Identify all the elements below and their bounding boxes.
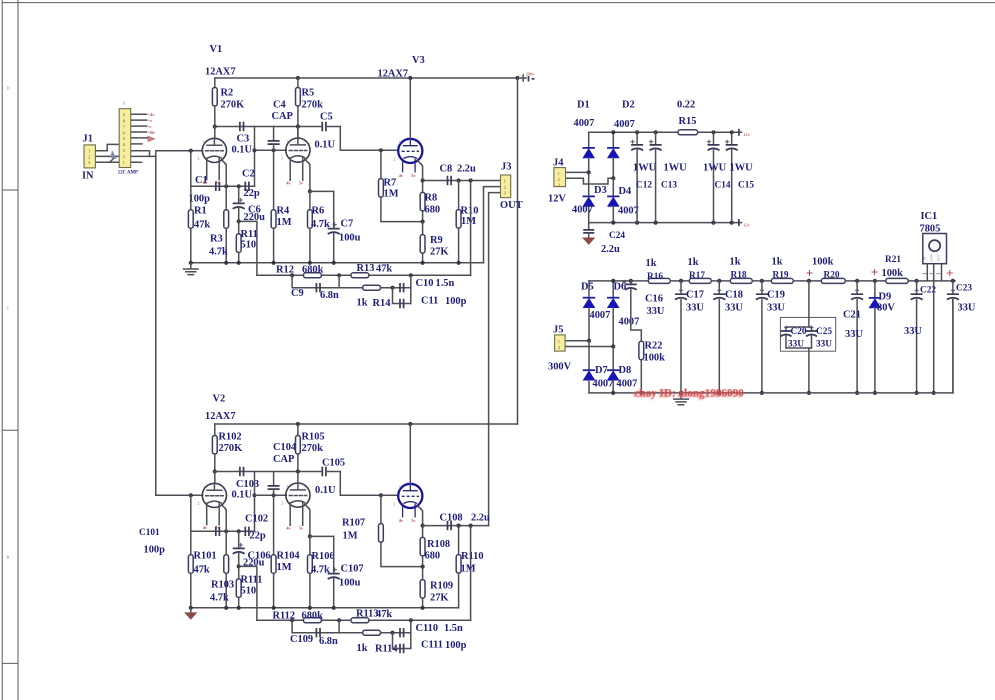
wire C104 bottom lead <box>273 489 275 495</box>
svg-text:C10: C10 <box>416 278 434 289</box>
capacitor C16 <box>625 284 637 289</box>
svg-text:1M: 1M <box>343 531 358 542</box>
svg-text:270K: 270K <box>219 443 243 454</box>
wire D3 top lead <box>588 172 590 196</box>
svg-text:2: 2 <box>197 156 199 161</box>
wire C5 to V3 grid <box>326 127 398 151</box>
wire D8 top lead <box>612 347 614 371</box>
wire C104 top lead <box>273 472 275 486</box>
wire J1 pin3 to U pin9 <box>95 161 141 163</box>
svg-text:1k: 1k <box>357 298 368 309</box>
svg-text:22p: 22p <box>250 531 266 542</box>
wire R11 top lead <box>238 221 240 234</box>
wire feedback tap down ch2 <box>239 566 257 620</box>
wire R106 bottom lead <box>309 573 311 608</box>
wire B+ rail seg3 <box>711 280 730 282</box>
capacitor C110 <box>400 628 404 637</box>
svg-text:C105: C105 <box>322 458 345 469</box>
svg-text:R4: R4 <box>277 206 290 217</box>
junction C17 <box>679 279 683 283</box>
svg-text:2.2u: 2.2u <box>457 164 476 175</box>
svg-text:12AX7: 12AX7 <box>378 69 409 80</box>
junction R105 top <box>296 422 300 426</box>
wire C25 top lead <box>811 327 813 331</box>
wire R7 bottom to R8/R9 <box>381 197 423 222</box>
wire D5 bottom lead <box>588 308 590 341</box>
svg-text:C21: C21 <box>843 310 861 321</box>
wire C1 C2 row <box>191 185 255 187</box>
wire U pin6 stub <box>131 143 142 145</box>
junction R112 left <box>290 618 294 622</box>
capacitor C109 <box>316 628 320 637</box>
svg-text:33U: 33U <box>725 303 743 314</box>
wire bottom channel ground rail <box>191 607 459 609</box>
junction R106/C107 <box>308 534 312 538</box>
connector J4 <box>554 168 566 187</box>
svg-text:R11: R11 <box>241 229 258 240</box>
wire R103 bottom lead <box>225 573 227 608</box>
junction R107 top <box>379 493 383 497</box>
wire R107 bottom to R108/R109 <box>381 542 423 567</box>
capacitor C22 <box>911 294 923 299</box>
resistor R6 <box>308 210 313 229</box>
wire C106 bottom lead <box>238 554 240 567</box>
wire R14 to C10 <box>381 287 411 289</box>
svg-text:33U: 33U <box>788 340 804 350</box>
wire V2b grid row <box>255 494 287 496</box>
capacitor C20 <box>781 331 792 336</box>
wire channel-2 input long vertical <box>155 156 157 495</box>
svg-text:D: D <box>7 86 10 91</box>
capacitor C18 <box>713 294 725 299</box>
wire V103 cathode out <box>418 506 423 526</box>
svg-text:2: 2 <box>281 501 283 506</box>
junction D5/D7 <box>587 339 591 343</box>
wire feedback tap down <box>239 221 257 275</box>
svg-text:R14: R14 <box>373 298 391 309</box>
junction R9 gnd <box>421 261 425 265</box>
capacitor C106 <box>233 548 245 553</box>
wire B+ rail seg1 <box>589 280 648 282</box>
svg-text:1: 1 <box>286 139 288 144</box>
svg-text:510: 510 <box>241 240 257 251</box>
wire heater rail right <box>698 131 742 133</box>
svg-text:0.1U: 0.1U <box>232 490 253 501</box>
resistor R106 <box>308 555 313 574</box>
junction R22 gnd <box>639 391 643 395</box>
junction R110 top <box>457 524 461 528</box>
svg-text:R101: R101 <box>194 551 217 562</box>
junction R108/R109 <box>421 565 425 569</box>
svg-text:B: B <box>7 555 10 560</box>
junction R12 left <box>290 273 294 277</box>
wire output row ch2 <box>423 525 489 527</box>
wire R105 bottom lead <box>297 454 299 472</box>
ground earth symbol B+ rail <box>674 393 689 405</box>
svg-text:680: 680 <box>425 551 441 562</box>
wire J4 pin2 jog <box>566 178 614 184</box>
resistor R7 <box>379 179 384 198</box>
svg-text:D4: D4 <box>619 186 632 197</box>
wire +280v rail <box>215 77 518 79</box>
svg-text:1: 1 <box>399 485 401 490</box>
wire R110 bottom lead / gnd rail corner <box>458 573 460 608</box>
svg-text:CAP: CAP <box>273 454 295 465</box>
wire IC1 IN leg <box>926 264 928 281</box>
svg-text:OUT: OUT <box>936 254 940 261</box>
junction C10 top <box>409 273 413 277</box>
wire J5 pin2 <box>565 346 613 348</box>
wire C25 bottom lead <box>811 336 813 348</box>
svg-text:R5: R5 <box>302 88 315 99</box>
wire R9 top lead <box>422 222 424 235</box>
wire C109 row <box>292 620 363 632</box>
svg-text:1: 1 <box>203 484 205 489</box>
wire U pin1 stub <box>131 113 147 115</box>
capacitor C23 <box>947 294 959 299</box>
triode V103 (12AX7 cathode follower) <box>398 484 422 518</box>
svg-text:1WU: 1WU <box>730 163 754 174</box>
wire R10 bottom lead <box>458 228 460 263</box>
wire R5 bottom lead <box>297 106 299 127</box>
diode D2 (1N4007) <box>607 147 619 149</box>
wire U pin7 jog <box>131 151 150 157</box>
junction C18 gnd <box>717 391 721 395</box>
svg-text:12v: 12v <box>744 222 751 227</box>
wire V2a plate lead <box>214 472 216 484</box>
wire V2a cathode lead <box>222 505 227 555</box>
svg-text:C103: C103 <box>236 479 259 490</box>
wire R108 bottom lead <box>422 556 424 567</box>
svg-text:D5: D5 <box>581 282 594 293</box>
junction C106/R111 <box>237 564 241 568</box>
wire C20 bottom lead <box>785 336 787 348</box>
wire V3 cathode out <box>418 161 423 181</box>
capacitor C108 <box>448 521 452 530</box>
junction R103 gnd <box>224 606 228 610</box>
resistor R15 <box>678 130 698 135</box>
wire plate coupling row <box>215 126 322 128</box>
wire R102 top lead <box>214 424 216 436</box>
capacitor C5 <box>322 122 326 131</box>
svg-text:D8: D8 <box>619 365 632 376</box>
wire C18 top lead <box>718 281 720 294</box>
svg-text:IC1: IC1 <box>921 211 938 222</box>
wire R101 top lead <box>190 531 192 555</box>
junction C15 top <box>730 130 734 134</box>
wire D4 bottom lead <box>612 206 614 222</box>
junction D9 gnd <box>873 391 877 395</box>
diode D4 (1N4007) <box>607 195 619 197</box>
wire D8 bottom lead <box>612 380 614 393</box>
svg-text:4007: 4007 <box>572 205 593 216</box>
wire C105 to V103 grid <box>326 472 398 496</box>
capacitor C107 <box>328 574 340 579</box>
resistor R10 <box>456 210 461 229</box>
svg-text:47k: 47k <box>194 565 210 576</box>
wire D9 bottom lead <box>874 308 876 393</box>
svg-text:1WU: 1WU <box>633 163 657 174</box>
svg-text:1k: 1k <box>772 257 783 268</box>
svg-text:C23: C23 <box>956 284 972 294</box>
svg-text:4.7k: 4.7k <box>311 565 330 576</box>
triode V3 (12AX7 cathode follower) <box>398 139 422 173</box>
resistor R4 <box>271 210 276 229</box>
wire C7 top lead <box>333 191 335 228</box>
capacitor C101 <box>216 527 220 536</box>
svg-text:4007: 4007 <box>614 119 635 130</box>
wire C106 top lead <box>238 531 240 548</box>
junction R14/C10/C11 <box>390 286 394 290</box>
junction R10 top <box>457 178 461 182</box>
wire C110 right vertical <box>410 620 412 648</box>
capacitor C8 <box>448 176 452 185</box>
wire V1 grid net <box>156 151 191 157</box>
power port marker top <box>738 129 740 136</box>
wire D7 bottom lead <box>588 380 590 393</box>
wire C109 right up <box>338 620 340 632</box>
resistor R104 <box>271 555 276 574</box>
svg-text:4007: 4007 <box>619 317 640 328</box>
junction R5 top <box>296 76 300 80</box>
svg-text:7805: 7805 <box>920 224 941 235</box>
wire R109 top lead <box>422 567 424 580</box>
wire C19 top lead <box>761 281 763 294</box>
wire C107 top lead <box>333 536 335 573</box>
junction C106 top <box>237 529 241 533</box>
wire C23 bottom to rail corner <box>952 300 954 393</box>
svg-text:R109: R109 <box>430 581 453 592</box>
svg-text:J3: J3 <box>501 161 511 172</box>
svg-text:U: U <box>123 101 126 106</box>
wire C17 bottom lead <box>680 300 682 393</box>
svg-text:C109: C109 <box>290 634 313 645</box>
resistor R16 <box>648 278 670 283</box>
wire R104 top lead <box>273 495 275 555</box>
junction C20 gnd <box>807 391 811 395</box>
junction output node <box>421 178 425 182</box>
svg-text:280v: 280v <box>526 72 535 77</box>
junction D1/D3 <box>587 170 591 174</box>
svg-text:C108: C108 <box>440 513 463 524</box>
capacitor C9 <box>316 283 320 292</box>
svg-text:2.2u: 2.2u <box>471 513 490 524</box>
junction grid tee <box>252 148 256 152</box>
svg-text:D1: D1 <box>577 100 590 111</box>
wire grid branch down <box>190 151 192 187</box>
svg-text:100p: 100p <box>445 640 467 651</box>
svg-text:1WU: 1WU <box>664 163 688 174</box>
junction R109 gnd <box>421 606 425 610</box>
wire D3 bottom lead <box>588 206 590 222</box>
wire J1 pin1 step up to U <box>95 144 119 150</box>
wire C22 bottom lead <box>916 300 918 393</box>
svg-text:270K: 270K <box>221 100 245 111</box>
wire R9 bottom lead <box>422 253 424 263</box>
junction V103 plate <box>408 422 412 426</box>
svg-text:33U: 33U <box>845 329 863 340</box>
junction C13 top <box>654 130 658 134</box>
svg-text:33U: 33U <box>816 340 832 350</box>
junction V2b plate node <box>296 469 300 473</box>
svg-text:100k: 100k <box>882 268 904 279</box>
wire R6 top lead <box>309 191 311 209</box>
wire V2b plate <box>297 472 299 484</box>
junction C21 gnd <box>855 391 859 395</box>
svg-text:0.1U: 0.1U <box>232 145 253 156</box>
svg-text:R1: R1 <box>194 206 207 217</box>
wire C16 to R22 <box>631 290 642 342</box>
svg-text:C104: C104 <box>273 442 296 453</box>
junction R6 gnd <box>308 261 312 265</box>
junction C7 gnd <box>332 261 336 265</box>
wire B+ rail seg7 <box>908 280 955 282</box>
svg-text:1M: 1M <box>277 562 292 573</box>
svg-text:R8: R8 <box>425 193 438 204</box>
junction R101 gnd <box>189 606 193 610</box>
power port marker bottom <box>738 219 740 226</box>
resistor R114 <box>363 630 381 635</box>
svg-text:R6: R6 <box>312 206 325 217</box>
tiny port mark above rail at D9 <box>872 269 878 275</box>
junction D2 rail <box>611 130 615 134</box>
svg-text:1M: 1M <box>384 189 399 200</box>
svg-text:R21: R21 <box>885 255 901 265</box>
svg-text:33U: 33U <box>647 306 665 317</box>
wire C14 bottom lead <box>713 150 715 223</box>
svg-text:510: 510 <box>241 586 257 597</box>
wire D7 top lead <box>588 341 590 371</box>
wire B+ rail seg5 <box>793 280 821 282</box>
wire C13 top lead <box>655 132 657 145</box>
svg-text:V1: V1 <box>210 44 223 55</box>
svg-text:680: 680 <box>425 205 441 216</box>
junction fb tap ch2 <box>469 524 473 528</box>
svg-text:R18: R18 <box>731 271 747 281</box>
wire D6 top lead <box>612 281 614 298</box>
svg-text:R104: R104 <box>277 551 300 562</box>
wire C15 bottom lead <box>731 150 733 223</box>
IC1 7805 regulator <box>923 234 947 264</box>
svg-text:R13: R13 <box>357 263 375 274</box>
wire R12 R13 row <box>257 274 471 276</box>
wire R101 bottom lead <box>190 573 192 608</box>
wire C20 top lead <box>785 327 787 331</box>
resistor R17 <box>689 278 711 283</box>
junction R104 gnd <box>272 606 276 610</box>
wire C6 bottom lead <box>238 209 240 222</box>
svg-text:C102: C102 <box>245 514 268 525</box>
wire R1 top lead <box>190 186 192 210</box>
svg-text:R103: R103 <box>211 580 234 591</box>
svg-text:1.5n: 1.5n <box>436 278 455 289</box>
wire C20/C25 bottom tie <box>786 347 812 349</box>
wire IC1 OUT leg <box>941 264 943 281</box>
capacitor C1 <box>216 182 220 191</box>
svg-text:GND: GND <box>929 253 933 261</box>
wire J3 pin3 down to channel 2 <box>489 193 501 526</box>
wire R106 top lead <box>309 536 311 554</box>
svg-text:0.1U: 0.1U <box>315 140 336 151</box>
resistor R8 <box>420 192 425 211</box>
capacitor C10 <box>400 283 404 292</box>
svg-text:R9: R9 <box>430 235 443 246</box>
junction C21 <box>855 279 859 283</box>
svg-text:C24: C24 <box>609 231 625 241</box>
junction D6 rail <box>611 279 615 283</box>
resistor R110 <box>456 555 461 574</box>
svg-text:R105: R105 <box>302 432 325 443</box>
capacitor C105 <box>322 467 326 476</box>
wire J1 pin2 to U <box>95 155 119 157</box>
wire V2b cathode lead <box>305 504 310 536</box>
junction output node ch2 <box>421 524 425 528</box>
junction R7 top <box>379 148 383 152</box>
wire D6 bottom lead <box>612 308 614 347</box>
resistor R21 <box>886 278 908 283</box>
ground earth symbol top channel <box>184 263 199 275</box>
resistor R107 <box>379 524 384 543</box>
svg-text:2: 2 <box>393 501 395 506</box>
svg-text:1: 1 <box>203 139 205 144</box>
wire R2 top lead <box>214 78 216 88</box>
junction R11 gnd <box>237 261 241 265</box>
svg-text:R19: R19 <box>773 271 789 281</box>
svg-text:CAP: CAP <box>272 111 294 122</box>
wire B+ rail seg4 <box>752 280 771 282</box>
svg-text:0.1U: 0.1U <box>315 485 336 496</box>
svg-text:2: 2 <box>281 156 283 161</box>
svg-text:12AX7: 12AX7 <box>205 411 236 422</box>
svg-text:300V: 300V <box>548 362 572 373</box>
svg-text:R17: R17 <box>689 271 705 281</box>
capacitor C4 <box>268 141 280 144</box>
svg-text:4.7k: 4.7k <box>209 247 228 258</box>
svg-text:47k: 47k <box>376 609 392 620</box>
wire D9 top lead <box>874 281 876 298</box>
svg-text:680k: 680k <box>302 265 324 276</box>
wire C21 top lead <box>856 281 858 294</box>
wire C12 bottom lead <box>636 150 638 223</box>
svg-text:1k: 1k <box>730 257 741 268</box>
svg-text:2: 2 <box>197 501 199 506</box>
svg-text:47k: 47k <box>376 264 392 275</box>
svg-text:6.8n: 6.8n <box>319 636 338 647</box>
svg-text:C111: C111 <box>421 640 443 651</box>
svg-text:1M: 1M <box>461 564 476 575</box>
diode D6 (1N4007) <box>607 297 619 299</box>
wire V1b grid row <box>255 149 287 151</box>
wire R3 bottom lead <box>225 228 227 262</box>
junction C16 <box>629 279 633 283</box>
wire R1 bottom lead <box>190 228 192 262</box>
wire R111 bottom lead <box>238 597 240 607</box>
junction C19 <box>760 279 764 283</box>
wire J4 pin1 <box>566 171 589 173</box>
wire R107 top lead <box>380 495 382 523</box>
junction V1 grid branch <box>189 149 193 153</box>
wire J5 pin1 <box>565 340 589 342</box>
svg-text:C4: C4 <box>273 100 286 111</box>
svg-text:100k: 100k <box>812 257 834 268</box>
junction C20 branch <box>807 279 811 283</box>
wire R6 bottom lead <box>309 228 311 262</box>
wire V2 plate rail <box>215 423 518 425</box>
svg-text:33U: 33U <box>686 303 704 314</box>
wire D2 top lead <box>612 132 614 148</box>
capacitor C2 <box>245 182 249 191</box>
wire V1 plate lead <box>214 127 216 139</box>
